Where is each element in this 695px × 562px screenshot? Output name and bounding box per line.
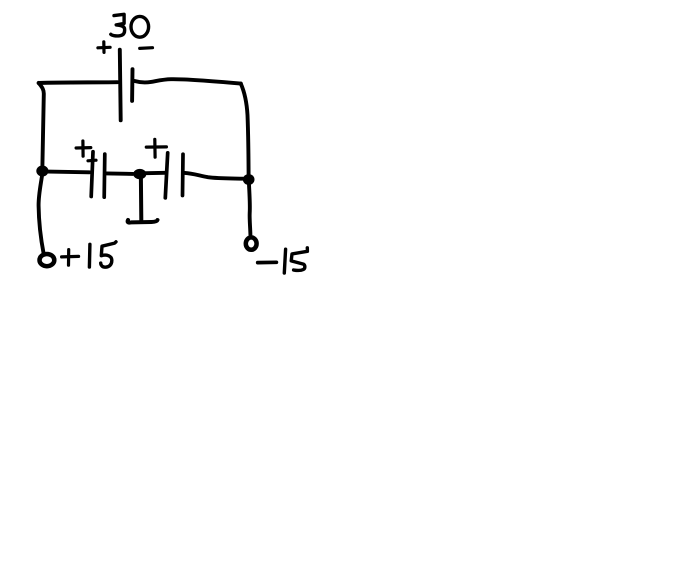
ground stem from node B <box>139 179 143 220</box>
node A junction dot (left) <box>36 166 48 177</box>
label +15 (digit 1) <box>88 244 92 267</box>
battery B2 plate tick mark <box>88 159 96 163</box>
terminal circle +15 <box>40 254 55 266</box>
label -15 (digit 5) <box>291 248 307 271</box>
label -15 (minus sign) <box>258 260 277 264</box>
wire node A to battery B2 <box>48 170 90 175</box>
battery B2 positive plate <box>91 152 93 197</box>
wire left side descending from corner to node A <box>39 83 44 166</box>
battery B3 positive plate <box>165 153 167 198</box>
plus sign of battery B3 <box>146 139 166 157</box>
wire top-right: B1 negative plate to right corner <box>135 79 241 83</box>
terminal circle -15 <box>246 237 257 249</box>
ground bar <box>128 220 158 223</box>
label +15 (digit 5) <box>101 242 116 267</box>
minus sign of battery B1 <box>140 46 153 50</box>
wire right side descending to node C <box>241 84 249 175</box>
label -15 (digit 1) <box>284 249 285 273</box>
node B junction dot (middle) <box>133 169 146 179</box>
battery B1 negative plate (short) <box>130 69 134 101</box>
battery B2 negative plate <box>102 154 106 197</box>
wire battery B2 to node B <box>107 171 134 175</box>
label +15 (plus sign) <box>62 250 79 266</box>
node C junction dot (right) <box>243 174 255 185</box>
wire node B to battery B3 <box>146 171 165 175</box>
battery B1 positive plate (long) <box>118 50 123 121</box>
plus sign of battery B2 <box>76 141 91 156</box>
battery B3 negative plate <box>181 154 185 195</box>
wire top-left: node A corner to B1 positive plate <box>39 80 118 85</box>
value label 30 (digit 0) <box>131 16 149 37</box>
value label 30 (digit 3) <box>111 14 125 36</box>
wire node A down to +15 terminal <box>39 177 44 255</box>
wire battery B3 to node C <box>185 173 244 179</box>
plus sign of battery B1 <box>98 42 110 53</box>
wire node C down to -15 terminal <box>249 185 250 235</box>
